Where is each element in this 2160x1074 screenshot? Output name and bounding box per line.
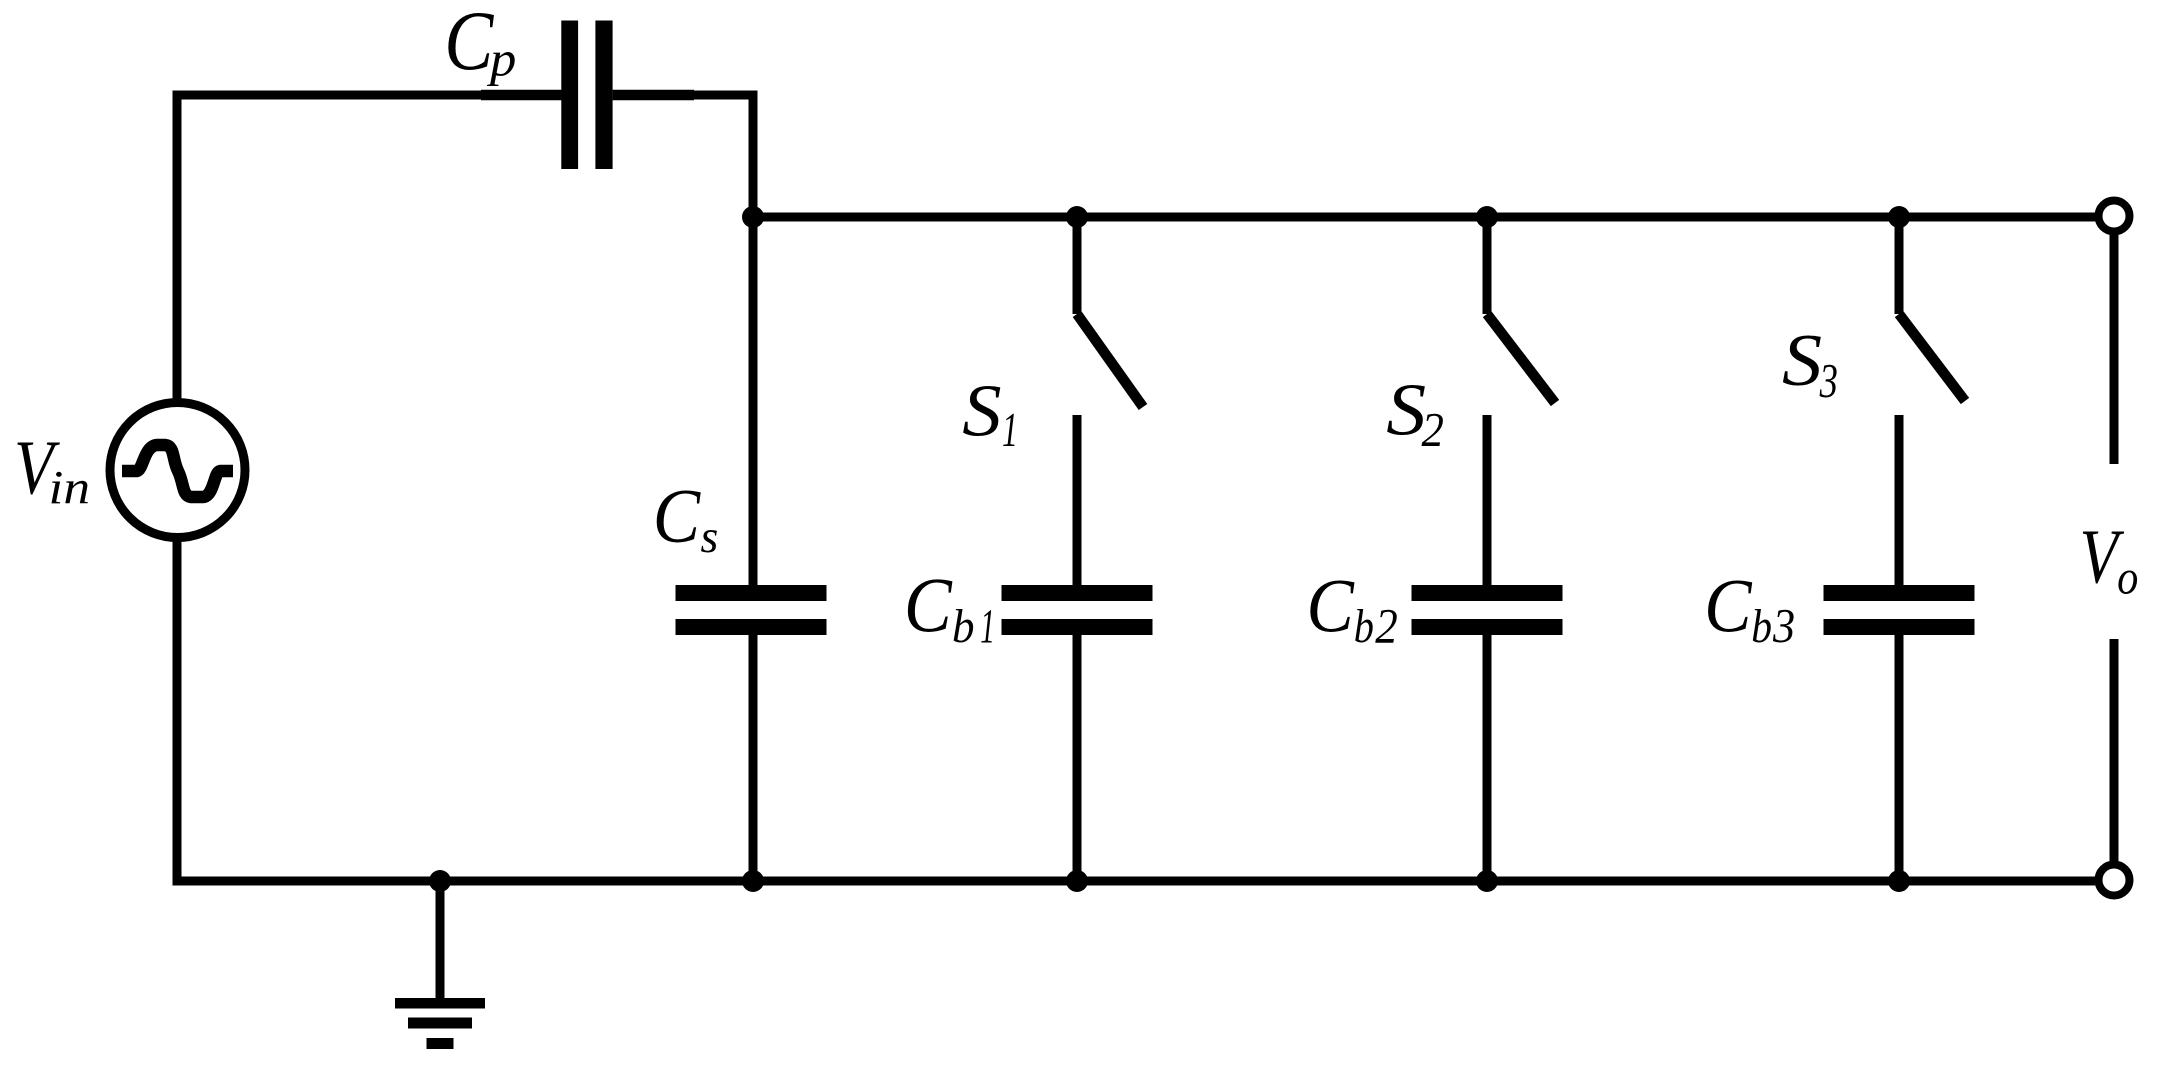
svg-text:C: C — [1306, 563, 1354, 648]
label S3 — [1782, 319, 1822, 402]
wire: switch S3 lower contact to Cb3 — [1895, 415, 1904, 585]
label Cs — [653, 474, 702, 559]
output terminal top (open circle) — [2099, 201, 2130, 232]
svg-text:b: b — [1751, 599, 1772, 652]
capacitor Cb2 — [1412, 585, 1563, 601]
node: bottom junction of branch 2 — [1476, 870, 1498, 892]
label S1 — [962, 369, 1001, 451]
switch S3 upper stub — [1895, 217, 1904, 314]
wire: Cs branch lower — [749, 715, 758, 878]
svg-text:p: p — [486, 32, 516, 88]
svg-text:b: b — [1354, 600, 1374, 653]
node: Cs bottom junction — [742, 870, 764, 892]
capacitor Cb3 lead upper — [1895, 505, 1904, 585]
label S2 — [1386, 368, 1426, 451]
node: top junction of branch 2 — [1476, 206, 1498, 228]
svg-text:1: 1 — [980, 599, 995, 654]
label Vin — [14, 425, 60, 511]
svg-text:C: C — [904, 563, 953, 649]
switch S1 upper stub — [1073, 217, 1082, 314]
svg-text:2: 2 — [1422, 403, 1444, 457]
svg-text:C: C — [444, 0, 494, 88]
ground node dot — [429, 870, 451, 892]
svg-text:3: 3 — [1819, 355, 1838, 408]
capacitor Cs — [676, 585, 827, 601]
wire: top bus from node A to output terminal — [753, 213, 2096, 222]
node: top junction of branch 3 — [1888, 206, 1910, 228]
ground — [395, 998, 485, 1009]
node: top junction of branch 1 — [1066, 206, 1088, 228]
wire: Cb2 to bottom bus — [1483, 715, 1492, 878]
wire: output rail upper segment — [2110, 235, 2119, 464]
label Cp — [444, 0, 494, 88]
wire: Cb1 to bottom bus — [1073, 715, 1082, 878]
capacitor Cb1 lead lower — [1073, 635, 1082, 715]
wire: switch S2 lower contact to Cb2 — [1483, 415, 1492, 585]
capacitor Cb2 lead upper — [1483, 505, 1492, 585]
switch S3 blade — [1899, 314, 1965, 401]
wire: Cs branch upper — [749, 217, 758, 585]
wire: switch S1 lower contact to Cb1 — [1073, 415, 1082, 585]
capacitor Cb2 lead lower — [1483, 635, 1492, 715]
label Vo — [2080, 515, 2125, 600]
wire: Cp to node A (corner at 753,95) — [694, 95, 753, 217]
output terminal bottom (open circle) — [2099, 865, 2130, 896]
svg-text:S: S — [1386, 368, 1426, 451]
svg-text:3: 3 — [1772, 599, 1795, 653]
switch S2 blade — [1487, 314, 1555, 403]
svg-text:S: S — [962, 369, 1001, 451]
svg-text:in: in — [49, 461, 91, 514]
wire: output rail lower segment — [2110, 639, 2119, 861]
label Cb2 — [1306, 563, 1354, 648]
svg-text:1: 1 — [1002, 402, 1018, 456]
ground stem — [436, 881, 445, 1003]
svg-text:S: S — [1782, 319, 1822, 402]
label Cb1 — [904, 563, 953, 649]
capacitor Cp — [561, 21, 578, 170]
source Vin (AC source circle) — [110, 403, 245, 538]
switch S1 blade — [1077, 314, 1143, 407]
node: bottom junction of branch 1 — [1066, 870, 1088, 892]
svg-text:2: 2 — [1375, 600, 1398, 654]
capacitor Cp left lead — [481, 90, 562, 101]
capacitor Cb1 lead upper — [1073, 505, 1082, 585]
capacitor Cs lead lower — [749, 635, 758, 715]
source Vin sine symbol — [122, 445, 233, 497]
wire: Cb3 to bottom bus — [1895, 715, 1904, 878]
switch S2 upper stub — [1483, 217, 1492, 314]
node: bottom junction of branch 3 — [1888, 870, 1910, 892]
svg-text:C: C — [1704, 563, 1752, 648]
label Cb3 — [1704, 563, 1752, 648]
svg-text:s: s — [701, 512, 719, 564]
svg-text:b: b — [952, 601, 975, 653]
capacitor Cb3 — [1824, 585, 1975, 601]
svg-text:C: C — [653, 474, 702, 559]
capacitor Cb1 — [1002, 585, 1153, 601]
capacitor Cs lead upper — [749, 505, 758, 585]
svg-text:o: o — [2117, 550, 2138, 604]
wire: Vin bottom lead to bottom bus and bottom bus to output — [177, 537, 2095, 881]
capacitor Cp right lead — [613, 90, 694, 101]
node A (junction dot at 753,217) — [742, 206, 764, 228]
capacitor Cb3 lead lower — [1895, 635, 1904, 715]
wire: top-left from Cp lead to Vin (corner at 177,95) — [177, 95, 481, 403]
